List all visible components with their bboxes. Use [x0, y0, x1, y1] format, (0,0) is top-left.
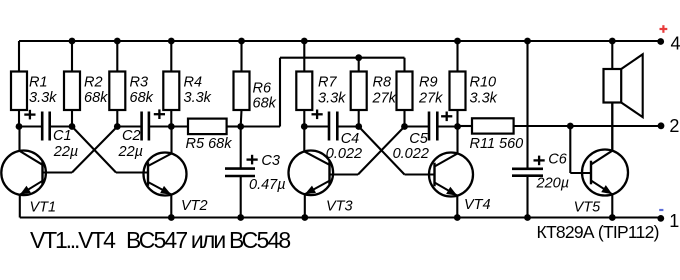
- svg-text:4: 4: [671, 34, 680, 54]
- transistor VT5: [574, 103, 628, 218]
- node R7 top: [301, 38, 308, 45]
- node R4 top: [168, 38, 175, 45]
- wire C5 to R10 node: [438, 125, 457, 127]
- wire VT3 collector to C4: [304, 125, 328, 127]
- svg-text:R10: R10: [470, 75, 497, 91]
- svg-text:0.022: 0.022: [393, 146, 429, 162]
- svg-text:C1: C1: [53, 128, 72, 144]
- svg-text:R8: R8: [373, 75, 392, 91]
- svg-text:VT2: VT2: [181, 198, 208, 214]
- node C6 top: [524, 38, 531, 45]
- capacitor C6: [512, 41, 569, 218]
- transistor VT3: [289, 127, 353, 218]
- terminal 4 positive supply: [657, 34, 680, 54]
- svg-text:C2: C2: [122, 128, 141, 144]
- svg-text:3.3k: 3.3k: [318, 91, 346, 107]
- svg-text:C3: C3: [261, 153, 280, 169]
- node C6 ground: [524, 214, 531, 221]
- svg-text:0.47µ: 0.47µ: [249, 177, 286, 193]
- wire top positive rail: [19, 40, 661, 42]
- svg-text:27k: 27k: [372, 91, 397, 107]
- svg-text:68k: 68k: [253, 96, 277, 112]
- capacitor C5: [393, 112, 453, 163]
- resistor R6: [234, 41, 277, 127]
- node C3 ground: [237, 214, 244, 221]
- svg-text:VT3: VT3: [326, 199, 353, 215]
- wire bottom ground rail: [20, 216, 661, 218]
- svg-text:C5: C5: [409, 131, 428, 147]
- transistor VT2: [144, 127, 208, 218]
- node R8 top junction: [355, 54, 362, 61]
- node R2 top: [69, 38, 76, 45]
- wire cross coupling R9 node to VT3 base: [329, 127, 405, 175]
- node VT3 collector: [301, 123, 308, 130]
- resistor R7: [296, 41, 346, 127]
- svg-text:VT5: VT5: [574, 200, 602, 216]
- transistor VT4: [429, 127, 491, 218]
- wire R9 node to C5: [405, 125, 429, 127]
- svg-text:R1: R1: [29, 75, 48, 91]
- wire VT5 base network: [570, 126, 591, 173]
- node VT5 emitter: [609, 214, 616, 221]
- svg-text:2: 2: [669, 116, 679, 136]
- capacitor C1: [24, 110, 78, 160]
- polarity plus red: [660, 28, 668, 30]
- svg-text:R2: R2: [84, 75, 103, 91]
- resistor R4: [163, 41, 211, 127]
- svg-text:68k: 68k: [84, 90, 108, 106]
- polarity minus blue: [659, 209, 663, 211]
- transistor VT1: [1, 127, 56, 218]
- svg-text:R7: R7: [318, 75, 337, 91]
- node VT3 base bias: [401, 123, 408, 130]
- node R10 top: [454, 38, 461, 45]
- terminal 2 output: [658, 116, 680, 136]
- svg-text:R11 560: R11 560: [470, 136, 524, 152]
- terminal 1 ground: [657, 211, 679, 231]
- resistor R10: [450, 41, 498, 127]
- svg-text:22µ: 22µ: [53, 144, 78, 160]
- node VT1 base bias: [114, 123, 121, 130]
- resistor R2: [64, 41, 108, 127]
- resistor R9: [397, 58, 444, 127]
- node VT4 emitter: [454, 214, 461, 221]
- node VT3 emitter: [301, 214, 308, 221]
- wire R3 node to C2: [117, 125, 140, 127]
- resistor R8: [351, 58, 397, 127]
- resistor R1: [11, 41, 57, 127]
- svg-text:22µ: 22µ: [118, 144, 143, 160]
- svg-text:3.3k: 3.3k: [29, 90, 57, 106]
- node VT2 collector: [168, 123, 175, 130]
- svg-text:220µ: 220µ: [536, 176, 570, 192]
- svg-text:R4: R4: [184, 75, 203, 91]
- svg-text:1: 1: [669, 211, 679, 231]
- svg-text:R5 68k: R5 68k: [186, 136, 233, 152]
- resistor R3: [109, 41, 153, 127]
- svg-text:3.3k: 3.3k: [184, 90, 212, 106]
- wire cross coupling R3 node to VT1 base: [43, 127, 118, 173]
- wire C4 to R8 node: [338, 125, 358, 127]
- svg-text:0.022: 0.022: [326, 146, 362, 162]
- resistor R11: [458, 118, 662, 152]
- capacitor C4: [312, 110, 363, 163]
- svg-text:R9: R9: [419, 75, 438, 91]
- wire cross coupling R8 node to VT4 base: [359, 127, 435, 175]
- svg-text:ВС547 или ВС548: ВС547 или ВС548: [126, 227, 290, 253]
- svg-text:C4: C4: [341, 131, 360, 147]
- node VT2 emitter: [168, 214, 175, 221]
- wire modulation line to R8 R9 tops: [241, 58, 405, 127]
- svg-text:VT4: VT4: [464, 197, 491, 213]
- node VT1 collector: [16, 123, 23, 130]
- capacitor C2: [118, 109, 166, 160]
- resistor R5: [171, 119, 240, 152]
- node C3 R6: [237, 123, 244, 130]
- node R6 top: [238, 38, 245, 45]
- wire node row VT1 collector to C1: [19, 125, 41, 127]
- node R3 top: [114, 38, 121, 45]
- wire C1 to R2 node: [51, 125, 72, 127]
- node VT4 base bias: [355, 123, 362, 130]
- svg-text:3.3k: 3.3k: [470, 91, 498, 107]
- svg-text:VT1...VT4: VT1...VT4: [30, 227, 116, 253]
- svg-text:C6: C6: [548, 152, 567, 168]
- node VT2 base bias: [69, 123, 76, 130]
- capacitor C3: [225, 127, 286, 218]
- wire C2 to R4 node: [150, 125, 171, 127]
- speaker BA1: [604, 41, 643, 150]
- node VT5 base: [567, 123, 574, 130]
- svg-text:R3: R3: [130, 75, 149, 91]
- node speaker top: [609, 38, 616, 45]
- wire cross coupling R2 node to VT2 base: [72, 127, 148, 173]
- svg-text:КТ829А (TIP112): КТ829А (TIP112): [537, 222, 659, 242]
- svg-text:68k: 68k: [130, 90, 154, 106]
- svg-text:VT1: VT1: [30, 199, 57, 215]
- svg-text:27k: 27k: [418, 91, 443, 107]
- svg-text:R6: R6: [253, 81, 272, 97]
- node VT4 collector: [454, 123, 461, 130]
